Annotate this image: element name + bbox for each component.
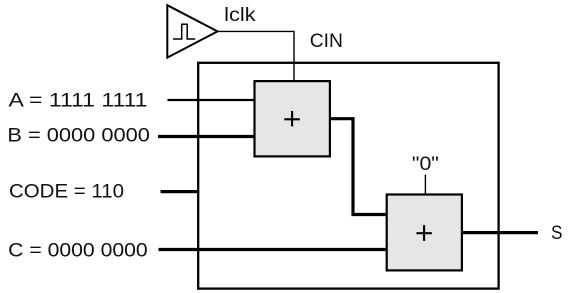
- plus sign U2: [416, 225, 432, 241]
- adder U1: [255, 81, 330, 156]
- svg-text:B = 0000 0000: B = 0000 0000: [7, 125, 150, 147]
- wire CODE: [161, 190, 200, 193]
- clock pulse symbol: [173, 24, 195, 39]
- svg-text:lclk: lclk: [224, 4, 256, 26]
- module boundary box: [198, 63, 498, 289]
- svg-text:"0": "0": [412, 153, 439, 175]
- wire C: [159, 248, 389, 251]
- wire U1 output to U2: [330, 119, 388, 215]
- svg-text:CODE = 110: CODE = 110: [9, 180, 124, 202]
- svg-text:CIN: CIN: [310, 30, 343, 52]
- wire B: [158, 135, 255, 138]
- wire A: [168, 99, 256, 101]
- svg-text:C = 0000 0000: C = 0000 0000: [8, 239, 148, 261]
- clock buffer (triangle): [167, 5, 217, 57]
- wire S output: [462, 231, 538, 234]
- adder U2: [387, 195, 462, 271]
- svg-text:A = 1111 1111: A = 1111 1111: [9, 90, 148, 112]
- wire lclk to CIN: [218, 31, 295, 81]
- wire "0" to U2: [424, 175, 426, 195]
- svg-text:S: S: [551, 222, 563, 244]
- plus sign U1: [284, 111, 300, 126]
